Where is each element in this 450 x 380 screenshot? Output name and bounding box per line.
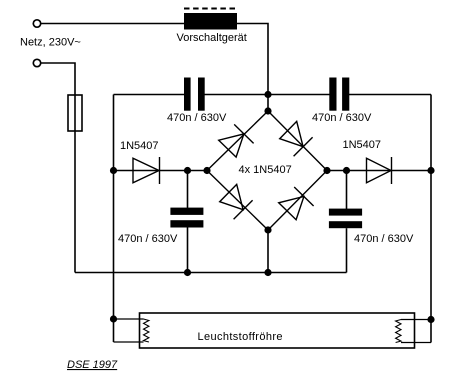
node dot left cap tap [184,167,191,174]
node dot top rail junction [264,91,271,98]
capacitor C2 470n/630V (top right) [329,78,349,111]
svg-text:470n / 630V: 470n / 630V [118,233,178,245]
diode D1 1N5407 (left) [133,157,160,184]
svg-text:470n / 630V: 470n / 630V [312,112,372,124]
diode D2 1N5407 (right) [367,157,392,184]
capacitor C4 470n/630V (bottom right) [329,209,362,229]
node dot lamp right [427,316,434,323]
wire top rail middle segment [205,94,330,96]
svg-text:4x 1N5407: 4x 1N5407 [239,164,292,176]
node dot bottom rail left cap [184,269,191,276]
wire bridge bottom stem [267,230,269,273]
node dot right edge / diode branch [427,167,434,174]
wire left diode branch [114,170,208,172]
filament right (zigzag) [396,320,401,343]
terminal J1 (mains top) [33,20,40,27]
capacitor C1 470n/630V (top left) [184,78,205,111]
svg-text:Leuchtstoffröhre: Leuchtstoffröhre [198,331,283,343]
wire right cap stem upper [346,171,348,210]
wire left edge (bridge minus to lamp left) [113,95,115,343]
node dot bridge right vertex [323,167,330,174]
svg-text:Vorschaltgerät: Vorschaltgerät [177,32,247,44]
svg-text:Netz, 230V~: Netz, 230V~ [20,37,81,49]
svg-text:470n / 630V: 470n / 630V [354,233,414,245]
wire top rail left segment [114,94,185,96]
wire bridge diamond [207,111,327,230]
lamp LP1 Leuchtstoffröhre body [140,313,415,348]
wire left cap stem upper [187,171,189,209]
node dot lamp left [110,315,117,322]
svg-text:1N5407: 1N5407 [343,139,382,151]
node dot bottom rail bridge stem [264,269,271,276]
wire right edge (bridge plus to lamp right) [430,95,432,343]
node dot right cap tap [343,167,350,174]
filament left (zigzag) [144,319,149,342]
wire right cap stem lower [346,228,348,272]
diode D3 (bridge upper-left) [219,124,254,157]
node dot bridge left vertex [203,167,210,174]
svg-text:1N5407: 1N5407 [120,140,159,152]
wire top node to bridge top vertex [267,95,269,112]
wire bottom rail [75,272,347,274]
svg-text:470n / 630V: 470n / 630V [167,112,227,124]
diode D4 (bridge upper-right) [280,121,313,156]
wire ballast to top node [237,24,268,95]
diode D5 (bridge lower-left) [220,184,253,219]
fuse F1 [68,95,82,131]
inductor L1 core dashed line [184,8,237,10]
wire lamp right stubs [401,319,431,321]
node dot bridge top vertex [264,107,271,114]
wire J1 to ballast [41,23,184,25]
terminal J2 (mains bottom) [33,59,40,66]
inductor L1 Vorschaltgerät (ballast) body [184,13,237,30]
wire through fuse down to bottom rail [74,95,76,273]
diode D6 (bridge lower-right) [279,187,314,220]
wire right diode branch [327,170,431,172]
capacitor C3 470n/630V (bottom left) [170,208,203,228]
wire top rail right segment [349,94,431,96]
wire lamp left stubs [114,318,144,320]
wire J2 to fuse [41,63,75,95]
node dot bridge bottom vertex [264,226,271,233]
svg-text:DSE 1997: DSE 1997 [67,359,118,371]
wire left cap stem lower [187,228,189,273]
node dot left edge / diode branch [110,167,117,174]
